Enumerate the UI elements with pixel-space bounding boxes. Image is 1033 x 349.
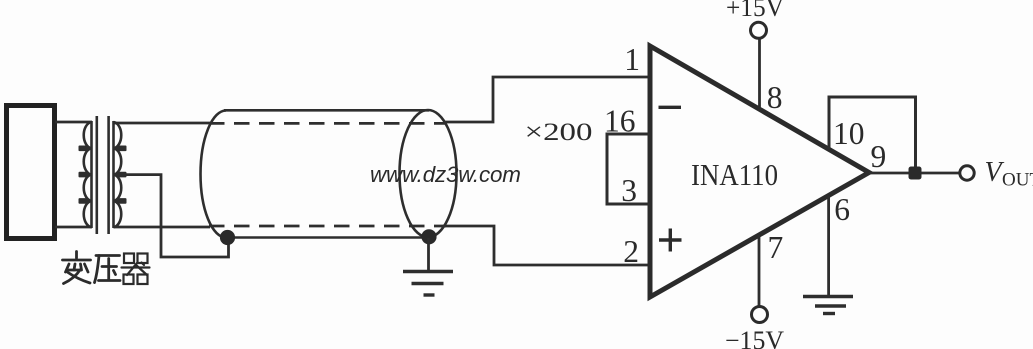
plus input symbol [659, 229, 682, 252]
wire pin 7 to -15V [758, 235, 761, 306]
wire pin 6 to ground [827, 196, 830, 296]
label 变压器 (hand drawn) [63, 252, 150, 285]
+15V terminal [751, 22, 767, 38]
junction dot output node [909, 167, 922, 180]
output wire [869, 172, 960, 175]
output terminal [960, 166, 974, 180]
wire box to primary bottom [55, 226, 92, 229]
wire shield to ground [427, 238, 430, 272]
inner conductor bottom (dashed) [209, 225, 446, 228]
inner conductor top (dashed) [209, 122, 446, 125]
压 [96, 254, 120, 257]
wire secondary top to cable [114, 122, 211, 125]
svg-text:2: 2 [623, 234, 639, 269]
wire box to primary top [55, 121, 92, 124]
shielded cable right ellipse [400, 110, 457, 237]
transformer core [96, 116, 99, 234]
svg-text:8: 8 [767, 80, 783, 115]
wire +15V to pin 8 [758, 39, 761, 111]
变 [75, 252, 78, 259]
svg-text:10: 10 [833, 116, 865, 151]
feedback wire pin 10 to output [829, 97, 916, 168]
svg-text:×200: ×200 [525, 119, 593, 146]
shielded cable bottom edge [224, 236, 430, 239]
svg-text:7: 7 [768, 230, 784, 265]
ground (cable shield) [403, 272, 453, 296]
shielded cable top edge [224, 109, 429, 112]
svg-text:www.dz3w.com: www.dz3w.com [370, 162, 521, 187]
wire secondary center tap to shield [122, 175, 229, 257]
-15V terminal [752, 307, 768, 323]
svg-text:INA110: INA110 [691, 157, 778, 192]
signal source box [7, 106, 55, 239]
svg-text:6: 6 [834, 192, 850, 227]
primary winding cusp ticks [79, 146, 89, 204]
svg-text:+15V: +15V [726, 0, 784, 22]
svg-text:−15V: −15V [725, 326, 784, 349]
junction dot shield left [220, 230, 235, 245]
wire cable bottom to pin 2 [445, 226, 648, 265]
op-amp U1 INA110 triangle [650, 46, 869, 297]
minus input symbol [659, 106, 682, 109]
wire secondary bottom to cable [114, 226, 211, 229]
gain set jumper pins 16-3 [607, 134, 650, 204]
shielded cable left cap [201, 111, 226, 238]
transformer T1 primary winding [84, 121, 92, 228]
junction dot shield right [421, 229, 436, 244]
器 [122, 254, 150, 285]
svg-text:OUT: OUT [1002, 170, 1033, 191]
transformer T1 secondary winding [114, 121, 122, 228]
wire cable top to pin 1 [444, 77, 648, 122]
secondary winding cusp ticks [117, 146, 127, 204]
ground (pin 6) [803, 297, 853, 314]
svg-text:1: 1 [624, 42, 640, 77]
svg-text:9: 9 [871, 139, 887, 174]
